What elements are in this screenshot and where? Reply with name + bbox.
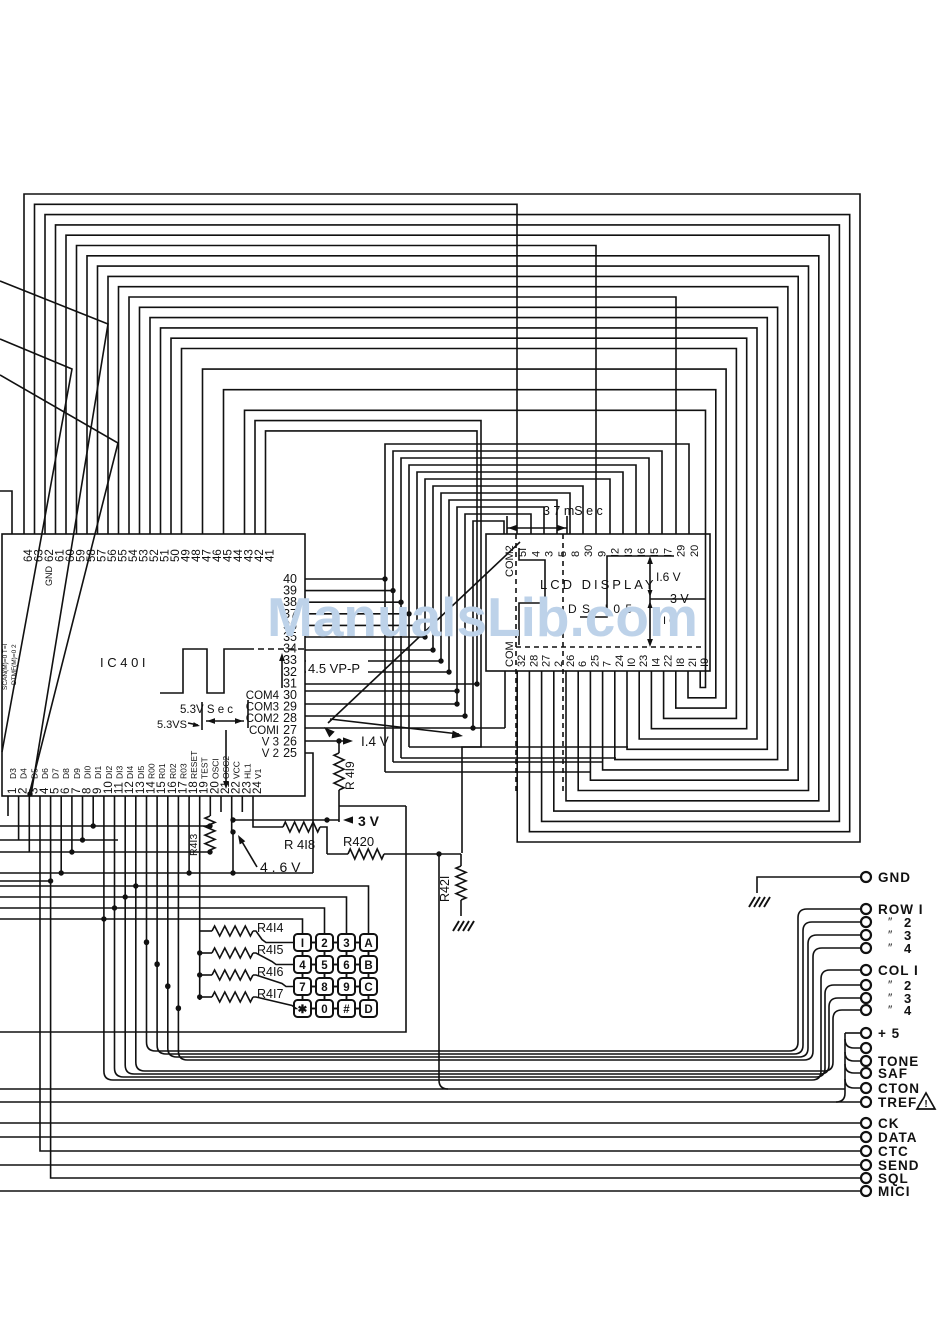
svg-text:D7: D7 [51, 768, 61, 779]
svg-text:41: 41 [265, 549, 277, 562]
j p8 [80, 837, 85, 842]
svg-text:5.3V S e c: 5.3V S e c [180, 704, 233, 716]
svg-text:DI1: DI1 [93, 766, 103, 780]
key link h [311, 986, 316, 988]
wire IC401 pin 43 loop to LCD bottom pin [245, 410, 706, 687]
svg-text:COM3: COM3 [246, 702, 279, 714]
wire ROW3 [168, 935, 861, 1057]
LCD dashed h [516, 646, 706, 648]
wire MIC1 [0, 1190, 861, 1192]
j p9 [91, 823, 96, 828]
svg-text:3: 3 [343, 938, 349, 950]
wire pin 39 [305, 590, 393, 592]
svg-text:3 7 mS e c: 3 7 mS e c [543, 504, 603, 518]
wire pin 22 VCC [231, 796, 233, 832]
wire GND [757, 877, 861, 893]
dim 37msec [506, 516, 508, 534]
key link v [302, 995, 304, 1000]
wire IC401 pin 63 to LCD top pin [35, 204, 518, 534]
svg-text:SCAN(M)=0 T=I: SCAN(M)=0 T=I [2, 643, 9, 690]
wire R417 right [253, 997, 296, 1009]
wire IC401 pin 47 loop to LCD bottom pin [203, 369, 727, 708]
junction pin 35 [422, 634, 427, 639]
svg-text:D6: D6 [40, 768, 50, 779]
svg-text:GND: GND [878, 870, 911, 885]
wire branch [845, 1039, 861, 1048]
svg-text:I9: I9 [699, 658, 711, 667]
svg-text:RESET: RESET [189, 751, 199, 779]
wire keypad col 4 [0, 886, 369, 934]
wire R415 left [200, 952, 212, 954]
key link v [324, 973, 326, 978]
wire R416 right [253, 975, 294, 987]
junction pin 39 [390, 588, 395, 593]
svg-text:HL1: HL1 [242, 763, 252, 779]
j p18 [186, 870, 191, 875]
wire branch [845, 1064, 861, 1073]
LCD display body [486, 534, 710, 671]
wire pin 33 [305, 660, 441, 662]
svg-text:2: 2 [321, 938, 327, 950]
svg-text:9: 9 [343, 982, 349, 994]
junction row node [154, 962, 159, 967]
svg-text:I.6 V: I.6 V [656, 570, 681, 584]
terminal ROW I [861, 904, 871, 914]
key link h [333, 986, 338, 988]
wire LCD top pin wrap 8 [449, 500, 557, 672]
key link v [324, 951, 326, 956]
terminal 4 [861, 943, 871, 953]
wire pin 7 [71, 796, 73, 852]
key A [360, 934, 377, 951]
svg-text:23: 23 [638, 655, 650, 667]
svg-text:D3: D3 [8, 768, 18, 779]
svg-text:DI4: DI4 [125, 766, 135, 780]
svg-text:30: 30 [583, 545, 595, 557]
junction pin 37 [406, 611, 411, 616]
wire IC401 pin 56 loop to LCD bottom pin [108, 276, 798, 780]
svg-text:R 4I9: R 4I9 [343, 761, 357, 790]
svg-text:CTC: CTC [878, 1144, 909, 1159]
wire SEND [0, 1164, 861, 1166]
svg-text:DI2: DI2 [104, 766, 114, 780]
key link h [333, 942, 338, 944]
terminal NC [861, 1043, 871, 1053]
svg-text:24: 24 [252, 781, 264, 794]
svg-text:8: 8 [321, 982, 328, 994]
key 6 [338, 956, 355, 973]
terminal DATA [861, 1132, 871, 1142]
terminal TREF [861, 1097, 871, 1107]
wire 4.6V vert [232, 832, 234, 873]
terminal 3 [861, 930, 871, 940]
wire COL2 [115, 985, 862, 1077]
resistor R414 [212, 926, 253, 936]
IC U1 IC401 body [2, 534, 305, 796]
junction row node [144, 940, 149, 945]
wire pin 15 down to ROW [156, 796, 158, 1045]
wire IC401 pin 45 loop to LCD bottom pin [224, 390, 716, 698]
wire OSC down arrow [225, 730, 227, 786]
junction p30 [454, 688, 459, 693]
warning triangle [917, 1093, 935, 1109]
wire R419 bottom branch [339, 805, 406, 807]
wire h826 [0, 825, 210, 827]
junction pin 12 col [123, 894, 128, 899]
wire pin 25 V2 [305, 753, 313, 873]
wire pin 36 [305, 624, 417, 626]
wire R416 left [200, 974, 212, 976]
wire +5 bundle [844, 1033, 846, 1093]
svg-text:29: 29 [676, 545, 688, 557]
wire pin 16 down to ROW [167, 796, 169, 1048]
wire R421 lead [460, 854, 462, 866]
svg-text:7: 7 [299, 982, 305, 994]
junction diagonals [27, 791, 32, 796]
svg-text:R4I4: R4I4 [257, 921, 283, 935]
wire IC401 pin 51 loop to LCD bottom pin [161, 328, 758, 739]
svg-text:DATA: DATA [878, 1130, 918, 1145]
svg-text:32: 32 [516, 655, 528, 667]
LCD dashed v1 [515, 534, 517, 792]
LCD level arrow [649, 560, 651, 643]
wire pin 5 to SQL [51, 796, 861, 1178]
wire R420 left [327, 853, 348, 855]
wire pin 9 [92, 796, 94, 826]
terminal MICI [861, 1186, 871, 1196]
svg-text:ManualsLib.com: ManualsLib.com [267, 586, 698, 648]
wire deep ext d [409, 746, 628, 748]
wire IC401 pin 60 loop to LCD bottom pin [66, 235, 829, 811]
junction R419 top [336, 738, 341, 743]
svg-text:I: I [301, 938, 304, 950]
svg-text:R02: R02 [168, 763, 178, 779]
wire R414 left [200, 930, 212, 932]
diagonal wire V2 [0, 339, 72, 752]
wire IC401 pin 57 loop to LCD bottom pin [98, 266, 809, 790]
terminal CK [861, 1118, 871, 1128]
svg-text:4: 4 [299, 960, 306, 972]
junction pin 17 row [176, 1005, 181, 1010]
wire vert 439 low [438, 854, 440, 1080]
svg-text:TEST: TEST [200, 757, 210, 779]
wire 1.4V line [305, 740, 350, 742]
clock waveform [160, 649, 248, 693]
wire pin 8 [82, 796, 84, 840]
wire pin 4 to CTC [40, 796, 861, 1151]
terminal SQL [861, 1173, 871, 1183]
key 3 [338, 934, 355, 951]
wire R414 right [253, 931, 294, 943]
key link v [302, 973, 304, 978]
resistor R413 [205, 816, 215, 850]
key link h [311, 964, 316, 966]
junction p31 [474, 681, 479, 686]
wire ROW2 [157, 922, 861, 1054]
wire pin 38 [305, 601, 401, 603]
wire CTON long [0, 1088, 845, 1090]
svg-text:D9: D9 [72, 768, 82, 779]
wire IC401 pin 49 loop to LCD bottom pin [182, 349, 737, 719]
terminal COL I [861, 965, 871, 975]
terminal SEND [861, 1160, 871, 1170]
svg-text:GND: GND [44, 566, 54, 587]
arrow up pin30 [281, 656, 283, 688]
svg-text:26: 26 [565, 655, 577, 667]
key I [294, 934, 311, 951]
wire pin 32 [305, 671, 449, 673]
key 4 [294, 956, 311, 973]
wire keypad col 2 [0, 908, 325, 934]
key link v [368, 951, 370, 956]
svg-text:R420: R420 [343, 834, 374, 849]
resistor R418 [283, 822, 320, 832]
key link v [368, 995, 370, 1000]
svg-text:I4: I4 [650, 658, 662, 667]
key link v [302, 951, 304, 956]
wire deep ext c [401, 757, 616, 759]
svg-text:20: 20 [689, 545, 701, 557]
key link h [333, 1008, 338, 1010]
wire +5 stub [845, 1032, 861, 1034]
wire branch [845, 1052, 861, 1061]
j p7 [69, 849, 74, 854]
wire IC401 pin 53 loop to LCD bottom pin [140, 307, 778, 759]
label 4.5VP-P [306, 660, 368, 675]
junction R420 node [436, 851, 441, 856]
svg-text:DI0: DI0 [83, 766, 93, 780]
resistor R416 [212, 970, 253, 980]
svg-text:4 . 6 V: 4 . 6 V [260, 859, 301, 875]
svg-text:4.5 VP-P: 4.5 VP-P [308, 661, 360, 676]
terminal + 5 [861, 1028, 871, 1038]
key link v [324, 995, 326, 1000]
wire pin 12 down to COL [124, 796, 126, 1065]
key link v [346, 951, 348, 956]
wire IC401 pin 42 routed down to R421 node [255, 421, 481, 853]
junction row node [165, 984, 170, 989]
LCD step right [580, 556, 674, 617]
svg-text:7: 7 [602, 661, 614, 667]
wire pin 6 [60, 796, 62, 873]
wire IC401 pin 61 loop to LCD bottom pin [56, 225, 840, 822]
wire TREF long [0, 1101, 861, 1103]
wire IC401 pin 52 loop to LCD bottom pin [150, 318, 767, 750]
svg-text:ROW I: ROW I [878, 902, 924, 917]
key D [360, 1000, 377, 1017]
junction 4.6V [230, 829, 235, 834]
wire pin 21 stub [220, 796, 222, 812]
svg-text:6: 6 [577, 661, 589, 667]
svg-text:OSCI: OSCI [210, 758, 220, 779]
svg-text:V 2: V 2 [262, 748, 279, 760]
wire 3V line [233, 819, 339, 821]
key ✱ [294, 1000, 311, 1017]
wire R417 left [200, 996, 212, 998]
dashed wave to pin34 [248, 648, 305, 650]
terminal TONE [861, 1056, 871, 1066]
wire LCD top pin wrap 5 [425, 479, 610, 638]
key link h [311, 942, 316, 944]
junction p34 [430, 647, 435, 652]
key 7 [294, 978, 311, 995]
wire pin 34 [305, 649, 433, 651]
svg-text:I.4 V: I.4 V [361, 734, 389, 749]
wire R419 leads [338, 741, 340, 753]
wire IC401 pin 62 loop to LCD bottom pin [45, 215, 850, 832]
arrow 1.4V [343, 737, 353, 744]
svg-text:C: C [364, 982, 372, 994]
wire pin 23 stub [241, 796, 243, 812]
svg-text:#: # [343, 1004, 350, 1016]
key C [360, 978, 377, 995]
svg-text:D: D [364, 1004, 372, 1016]
svg-text:D4: D4 [19, 768, 29, 779]
wire IC401 pin 41 routed down to pin31 node [266, 431, 478, 684]
junction pin 16 row [165, 983, 170, 988]
key 5 [316, 956, 333, 973]
junction pin 15 row [154, 961, 159, 966]
dim arrows [206, 720, 244, 722]
diagonal wire V1 [0, 281, 108, 795]
wire LCD top pin wrap 1 [393, 451, 662, 762]
key link h [355, 986, 360, 988]
junction p32 [446, 669, 451, 674]
wire LCD top pin wrap 3 [409, 465, 636, 747]
junction pin 11 col [112, 905, 117, 910]
svg-text:COM4: COM4 [246, 690, 280, 702]
svg-text:VCC: VCC [232, 761, 242, 779]
svg-text:MICI: MICI [878, 1184, 911, 1199]
svg-text:R42I: R42I [438, 876, 452, 902]
wire pin 24 to R418 [253, 796, 283, 827]
svg-text:8: 8 [570, 551, 582, 557]
svg-text:DI3: DI3 [115, 766, 125, 780]
wire LCD top pin wrap 6 [433, 486, 583, 650]
svg-text:R00: R00 [147, 763, 157, 779]
key B [360, 956, 377, 973]
terminal 2 [861, 980, 871, 990]
svg-text:24: 24 [614, 655, 626, 667]
wire pin 30 COM4 [305, 690, 457, 692]
junction rowchain [197, 950, 202, 955]
junction pin 13 col [133, 883, 138, 888]
svg-text:R01: R01 [157, 763, 167, 779]
svg-text:COM2: COM2 [504, 545, 516, 577]
wire deep ext a [385, 771, 590, 773]
key 2 [316, 934, 333, 951]
junction pin 10 col [101, 916, 106, 921]
terminal SAF [861, 1068, 871, 1078]
svg-text:4: 4 [530, 551, 542, 557]
junction 3V b [324, 817, 329, 822]
terminal CTON [861, 1083, 871, 1093]
svg-text:I8: I8 [675, 658, 687, 667]
terminal CTC [861, 1146, 871, 1156]
svg-text:!: ! [924, 1099, 927, 1110]
wire LCD top pin wrap 2 [401, 458, 649, 758]
wire pin 17 down to ROW [177, 796, 179, 1051]
wire h840 [0, 839, 118, 841]
wire keypad surround [0, 806, 406, 1032]
resistor R421 [456, 866, 466, 900]
ground symbol GND [749, 897, 755, 907]
LCD step left [519, 548, 545, 645]
diagonal wire V3 [0, 375, 118, 795]
svg-text:V1: V1 [253, 768, 263, 779]
svg-text:V 3: V 3 [262, 736, 279, 748]
wire keypad col 3 [0, 897, 347, 934]
wire R421 bot [460, 900, 462, 916]
svg-text:B: B [364, 960, 372, 972]
wire pin 11 down to COL [114, 796, 116, 1068]
key link v [346, 995, 348, 1000]
wire IC401 pin 64 loop to LCD bottom pin [24, 194, 860, 842]
wire ROW1 [147, 909, 862, 1051]
wire pin 35 [305, 636, 425, 638]
junction pin 40 [382, 576, 387, 581]
junction pin5 y881 [48, 878, 53, 883]
j 233-873 [230, 870, 235, 875]
junction rowchain [197, 972, 202, 977]
wire IC401 pin 55 loop to LCD bottom pin [119, 287, 788, 770]
svg-text:D8: D8 [61, 768, 71, 779]
wire CK [0, 1122, 861, 1124]
wire pin 31 [305, 683, 477, 685]
wire DATA [0, 1136, 861, 1138]
svg-text:0: 0 [321, 1004, 327, 1016]
svg-text:27: 27 [541, 655, 553, 667]
svg-text:DI5: DI5 [136, 766, 146, 780]
wire R415 right [253, 953, 294, 965]
resistor R419 [334, 753, 344, 790]
junction pin 36 [414, 623, 419, 628]
resistor R420 [348, 849, 384, 859]
junction rowchain [197, 994, 202, 999]
svg-text:I0: I0 [626, 658, 638, 667]
wire R420 right [384, 853, 461, 855]
ground R421 [453, 921, 459, 931]
wire h873 [0, 872, 313, 874]
wire pin 19 chain [199, 796, 201, 1000]
wire R418 right [320, 827, 327, 854]
wire LCD top pin wrap 4 [417, 472, 623, 626]
LCD 3V tick [650, 598, 706, 600]
svg-text:A: A [364, 938, 372, 950]
LCD dashed v2 [562, 534, 564, 792]
junction p28 [462, 713, 467, 718]
key link h [311, 1008, 316, 1010]
terminal 2 [861, 917, 871, 927]
wire COL3 [125, 998, 861, 1074]
arrow COM A1 [328, 542, 520, 723]
wire deep ext b [393, 761, 603, 763]
svg-text:28: 28 [528, 655, 540, 667]
terminal GND [861, 872, 871, 882]
arrow COM A2 [330, 719, 459, 734]
wire h852 [0, 851, 210, 853]
junction com1x [470, 725, 475, 730]
junction p29 [454, 701, 459, 706]
resistor R417 [212, 992, 253, 1002]
wire ROW4 [178, 948, 861, 1060]
key 9 [338, 978, 355, 995]
junction R413 bot [207, 849, 212, 854]
svg-text:R 4I8: R 4I8 [284, 837, 315, 852]
svg-text:2I: 2I [687, 658, 699, 667]
wire pin 10 down to COL [103, 796, 105, 1071]
key link v [346, 973, 348, 978]
